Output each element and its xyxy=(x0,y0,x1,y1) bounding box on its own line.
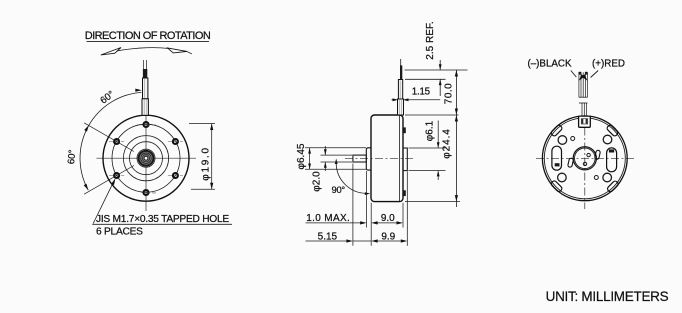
svg-text:(–)BLACK: (–)BLACK xyxy=(527,59,572,70)
svg-text:UNIT: MILLIMETERS: UNIT: MILLIMETERS xyxy=(546,289,669,304)
svg-text:JIS M1.7×0.35 TAPPED HOLE: JIS M1.7×0.35 TAPPED HOLE xyxy=(96,214,229,225)
svg-text:φ19.0: φ19.0 xyxy=(201,146,212,180)
svg-text:60°: 60° xyxy=(66,149,78,165)
svg-text:(+)RED: (+)RED xyxy=(592,59,625,70)
svg-text:2.5 REF.: 2.5 REF. xyxy=(425,21,436,59)
svg-text:1.15: 1.15 xyxy=(412,87,430,98)
svg-text:9.0: 9.0 xyxy=(381,213,395,224)
svg-text:70.0: 70.0 xyxy=(444,83,455,104)
svg-text:9.9: 9.9 xyxy=(381,232,395,243)
svg-text:φ2.0: φ2.0 xyxy=(312,171,323,192)
svg-text:φ6.1: φ6.1 xyxy=(425,120,436,141)
svg-text:φ6.45: φ6.45 xyxy=(296,143,307,169)
svg-text:5.15: 5.15 xyxy=(318,232,338,243)
svg-text:φ24.4: φ24.4 xyxy=(441,128,452,158)
svg-text:90°: 90° xyxy=(332,184,346,195)
svg-text:6 PLACES: 6 PLACES xyxy=(96,227,143,238)
svg-text:DIRECTION OF ROTATION: DIRECTION OF ROTATION xyxy=(85,30,211,42)
svg-text:1.0 MAX.: 1.0 MAX. xyxy=(306,213,350,224)
